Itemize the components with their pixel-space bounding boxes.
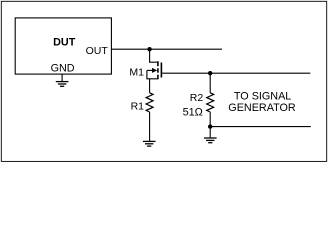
wire OUT net (top horizontal): [111, 48, 222, 50]
svg-text:R1: R1: [131, 101, 145, 113]
wire M1 drain lead: [150, 49, 159, 62]
svg-text:GENERATOR: GENERATOR: [228, 102, 296, 114]
ground (R1): [143, 141, 156, 146]
DUT block: [15, 18, 111, 74]
junction gate net / R2: [208, 71, 212, 75]
svg-text:OUT: OUT: [86, 45, 109, 57]
wire R2 bottom lead: [209, 112, 211, 127]
svg-text:51Ω: 51Ω: [183, 106, 203, 118]
resistor R2: [207, 93, 214, 112]
wire GND pin to ground: [61, 74, 63, 81]
ground (R2): [204, 138, 217, 143]
svg-text:M1: M1: [129, 67, 144, 79]
resistor R1: [146, 93, 153, 112]
wire R2 junction to ground: [209, 127, 211, 138]
ground (DUT GND): [56, 82, 69, 87]
svg-text:DUT: DUT: [53, 37, 76, 49]
wire gate net to signal generator (middle horizontal): [162, 72, 310, 74]
junction on OUT net: [147, 47, 151, 51]
svg-text:GND: GND: [51, 62, 75, 74]
wire M1 source to R1: [149, 79, 151, 93]
wire R1 to ground: [149, 112, 151, 141]
svg-text:TO SIGNAL: TO SIGNAL: [234, 90, 291, 102]
svg-text:R2: R2: [190, 92, 204, 104]
transistor M1: [147, 61, 162, 79]
wire R2 top lead: [209, 73, 211, 93]
junction R2 / return line: [208, 124, 212, 128]
wire return line to signal generator (bottom horizontal): [210, 126, 311, 128]
